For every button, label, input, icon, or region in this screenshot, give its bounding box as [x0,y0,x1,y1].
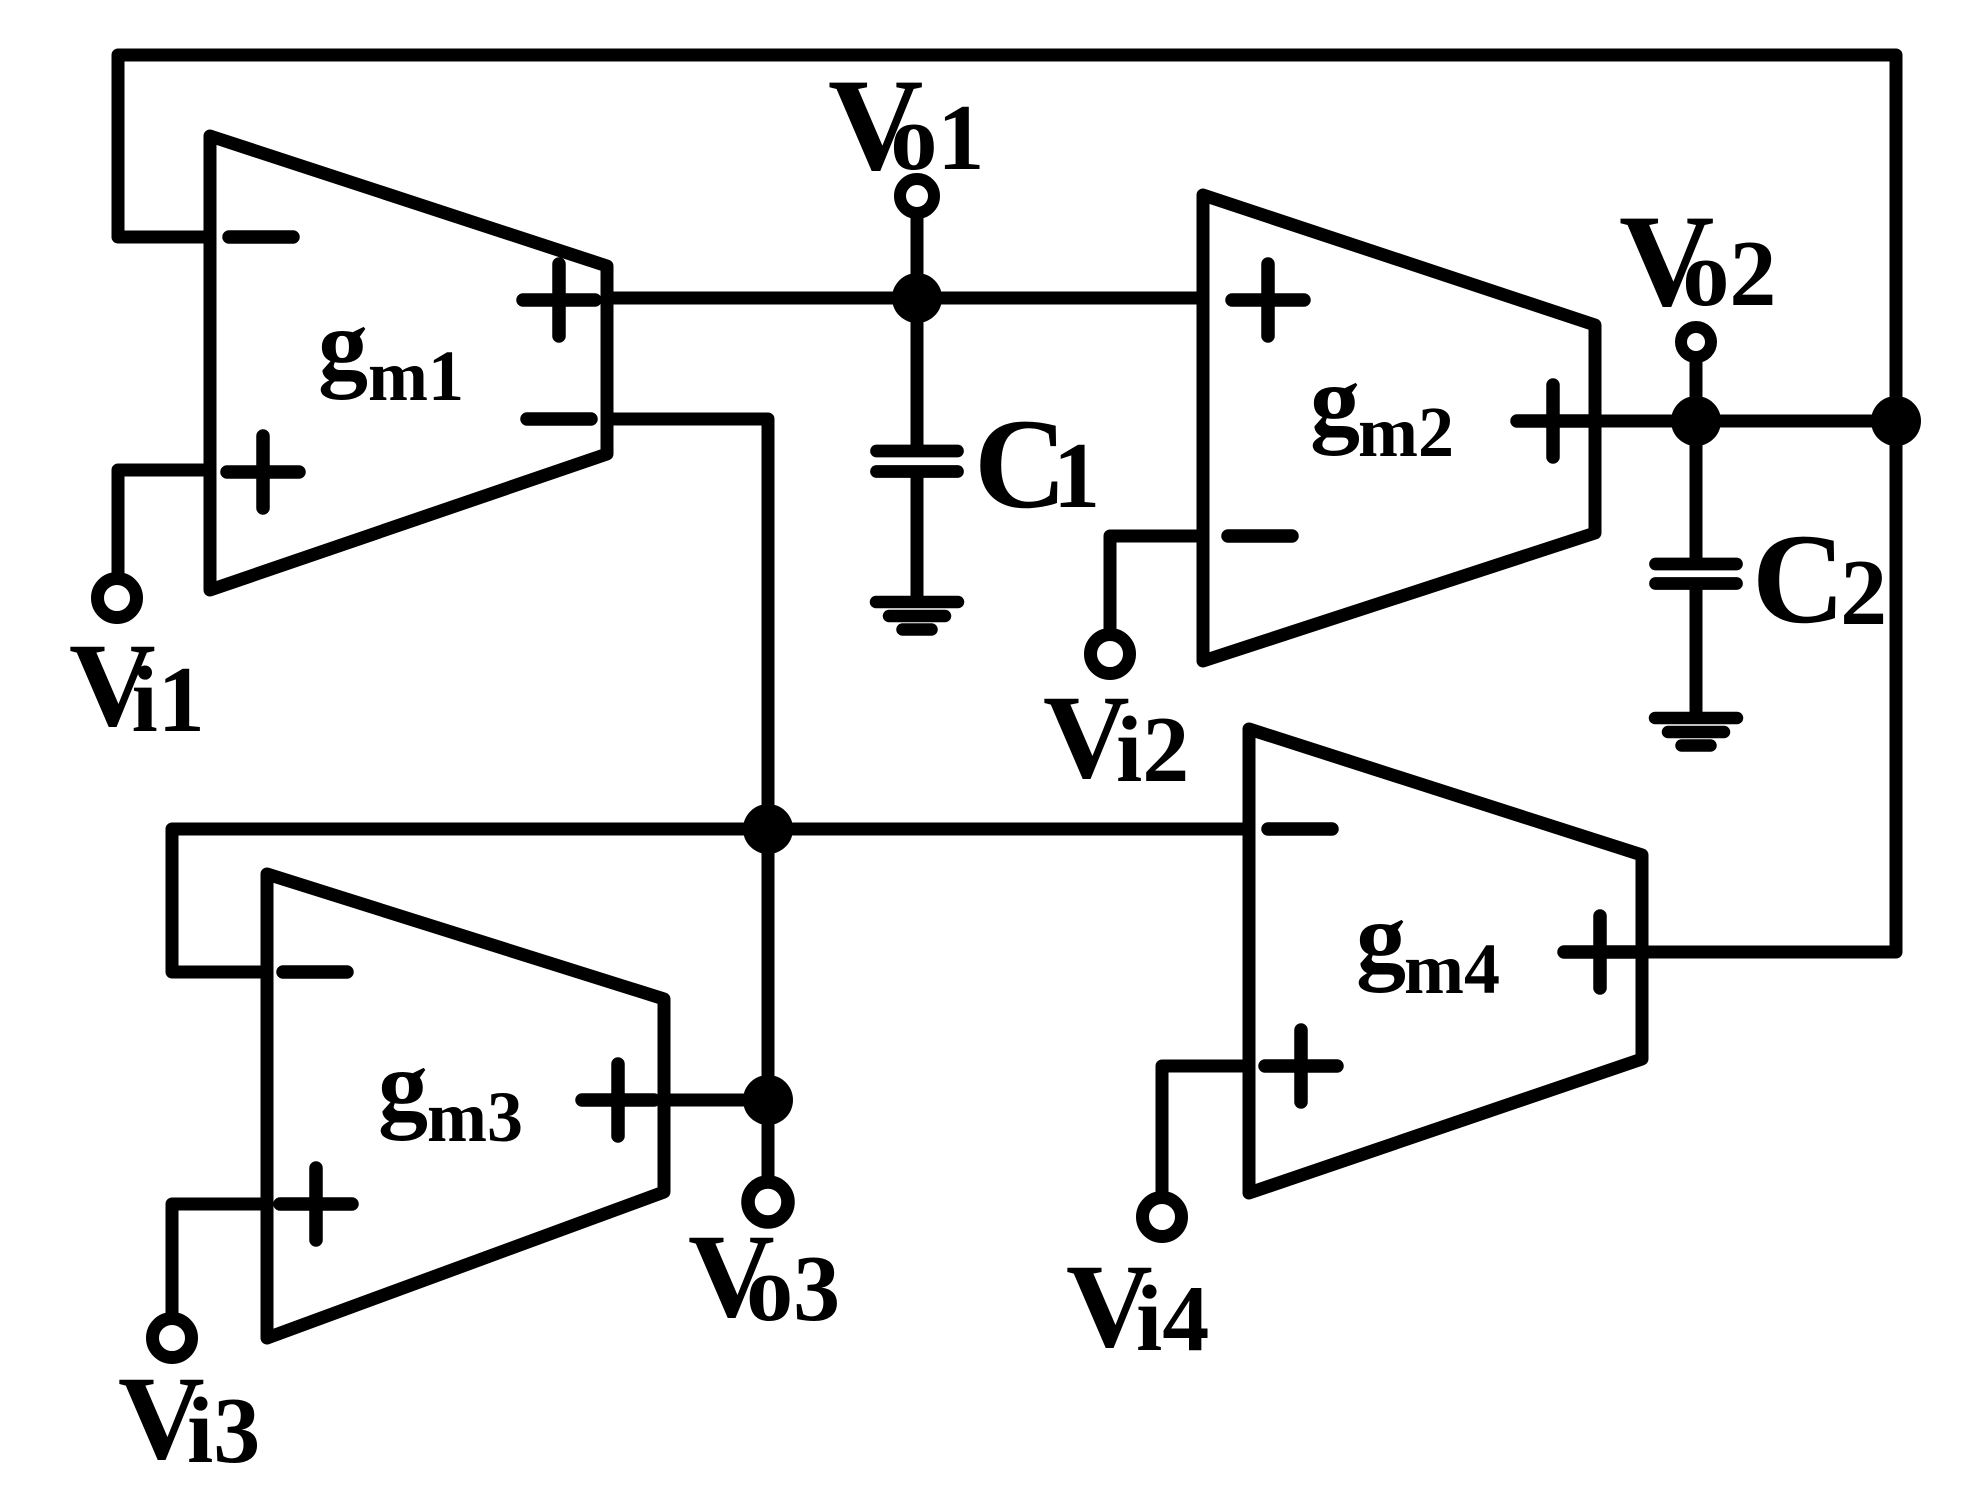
capacitor C2 (plates) [1656,564,1737,584]
wire feedback loop: gm1 inverting input to top rail to right rail to gm4 output [118,55,1896,952]
ground symbol (C1 ground) [876,602,958,630]
wire Vo2 node to C2 top plate [1690,421,1703,561]
gm2 inverting input marker [1228,529,1292,543]
op-amp gm1 (OTA trapezoid body) [210,136,607,590]
wire C2 bottom plate to ground [1690,586,1703,716]
gm2 non-inverting input marker [1232,264,1304,336]
node right-rail junction (junction dot) [1871,396,1921,446]
gm1 negative output marker [527,412,591,426]
wire gm3 inverting input loop / centre row to gm4 inverting input [172,829,1249,972]
wire Vo1 terminal stub [911,200,924,298]
gm4 output marker [1564,916,1636,988]
op-amp gm3 (OTA trapezoid body) [267,874,664,1338]
wire Vi2 to gm2 - input [1110,536,1203,654]
wire Vo2 terminal stub [1690,346,1703,421]
op-amp gm4 (OTA trapezoid body) [1249,729,1642,1193]
terminal Vo1 (open circle) [900,179,934,213]
wire gm1 - output down to Vo3 node [607,419,768,1100]
wire Vo1 node to C1 top plate [911,298,924,448]
gm1 non-inverting input marker [227,436,299,508]
capacitor C1 (plates) [877,451,958,472]
gm3 output marker [582,1064,654,1136]
gm1 positive output marker [523,264,595,336]
gm3 non-inverting input marker [280,1168,352,1240]
wire Vi3 to gm3 + input [172,1204,267,1338]
wire Vo3 terminal stub [762,1100,775,1202]
gm4 non-inverting input marker [1265,1030,1337,1102]
wire gm2 output to Vo2 node and right rail [1595,415,1896,428]
wire gm1 + output to gm2 + input (node Vo1 net) [607,292,1203,305]
gm1 inverting input marker [229,230,293,244]
wire Vi4 to gm4 + input [1162,1066,1249,1217]
terminal Vo3 (open circle) [748,1182,788,1222]
terminal Vo2 (open circle) [1681,327,1711,357]
op-amp gm2 (OTA trapezoid body) [1203,195,1595,661]
wire gm3 output to Vo3 node [664,1094,768,1107]
terminal Vi2 (open circle) [1091,635,1130,674]
terminal Vi4 (open circle) [1143,1198,1182,1237]
gm3 inverting input marker [283,965,347,979]
node Vo3 (junction dot) [743,1075,793,1125]
terminal Vi3 (open circle) [153,1319,192,1358]
node Vo2 (junction dot) [1671,396,1721,446]
ground symbol (C2 ground) [1655,718,1737,746]
gm2 output marker [1517,385,1589,457]
node centre node (gm1- / gm3 loop / gm4-) (junction dot) [743,804,793,854]
wire C1 bottom plate to ground [911,474,924,600]
gm4 inverting input marker [1268,822,1332,836]
terminal Vi1 (open circle) [98,579,137,618]
wire Vi1 to gm1 + input [118,470,210,598]
node Vo1 (junction dot) [892,273,942,323]
